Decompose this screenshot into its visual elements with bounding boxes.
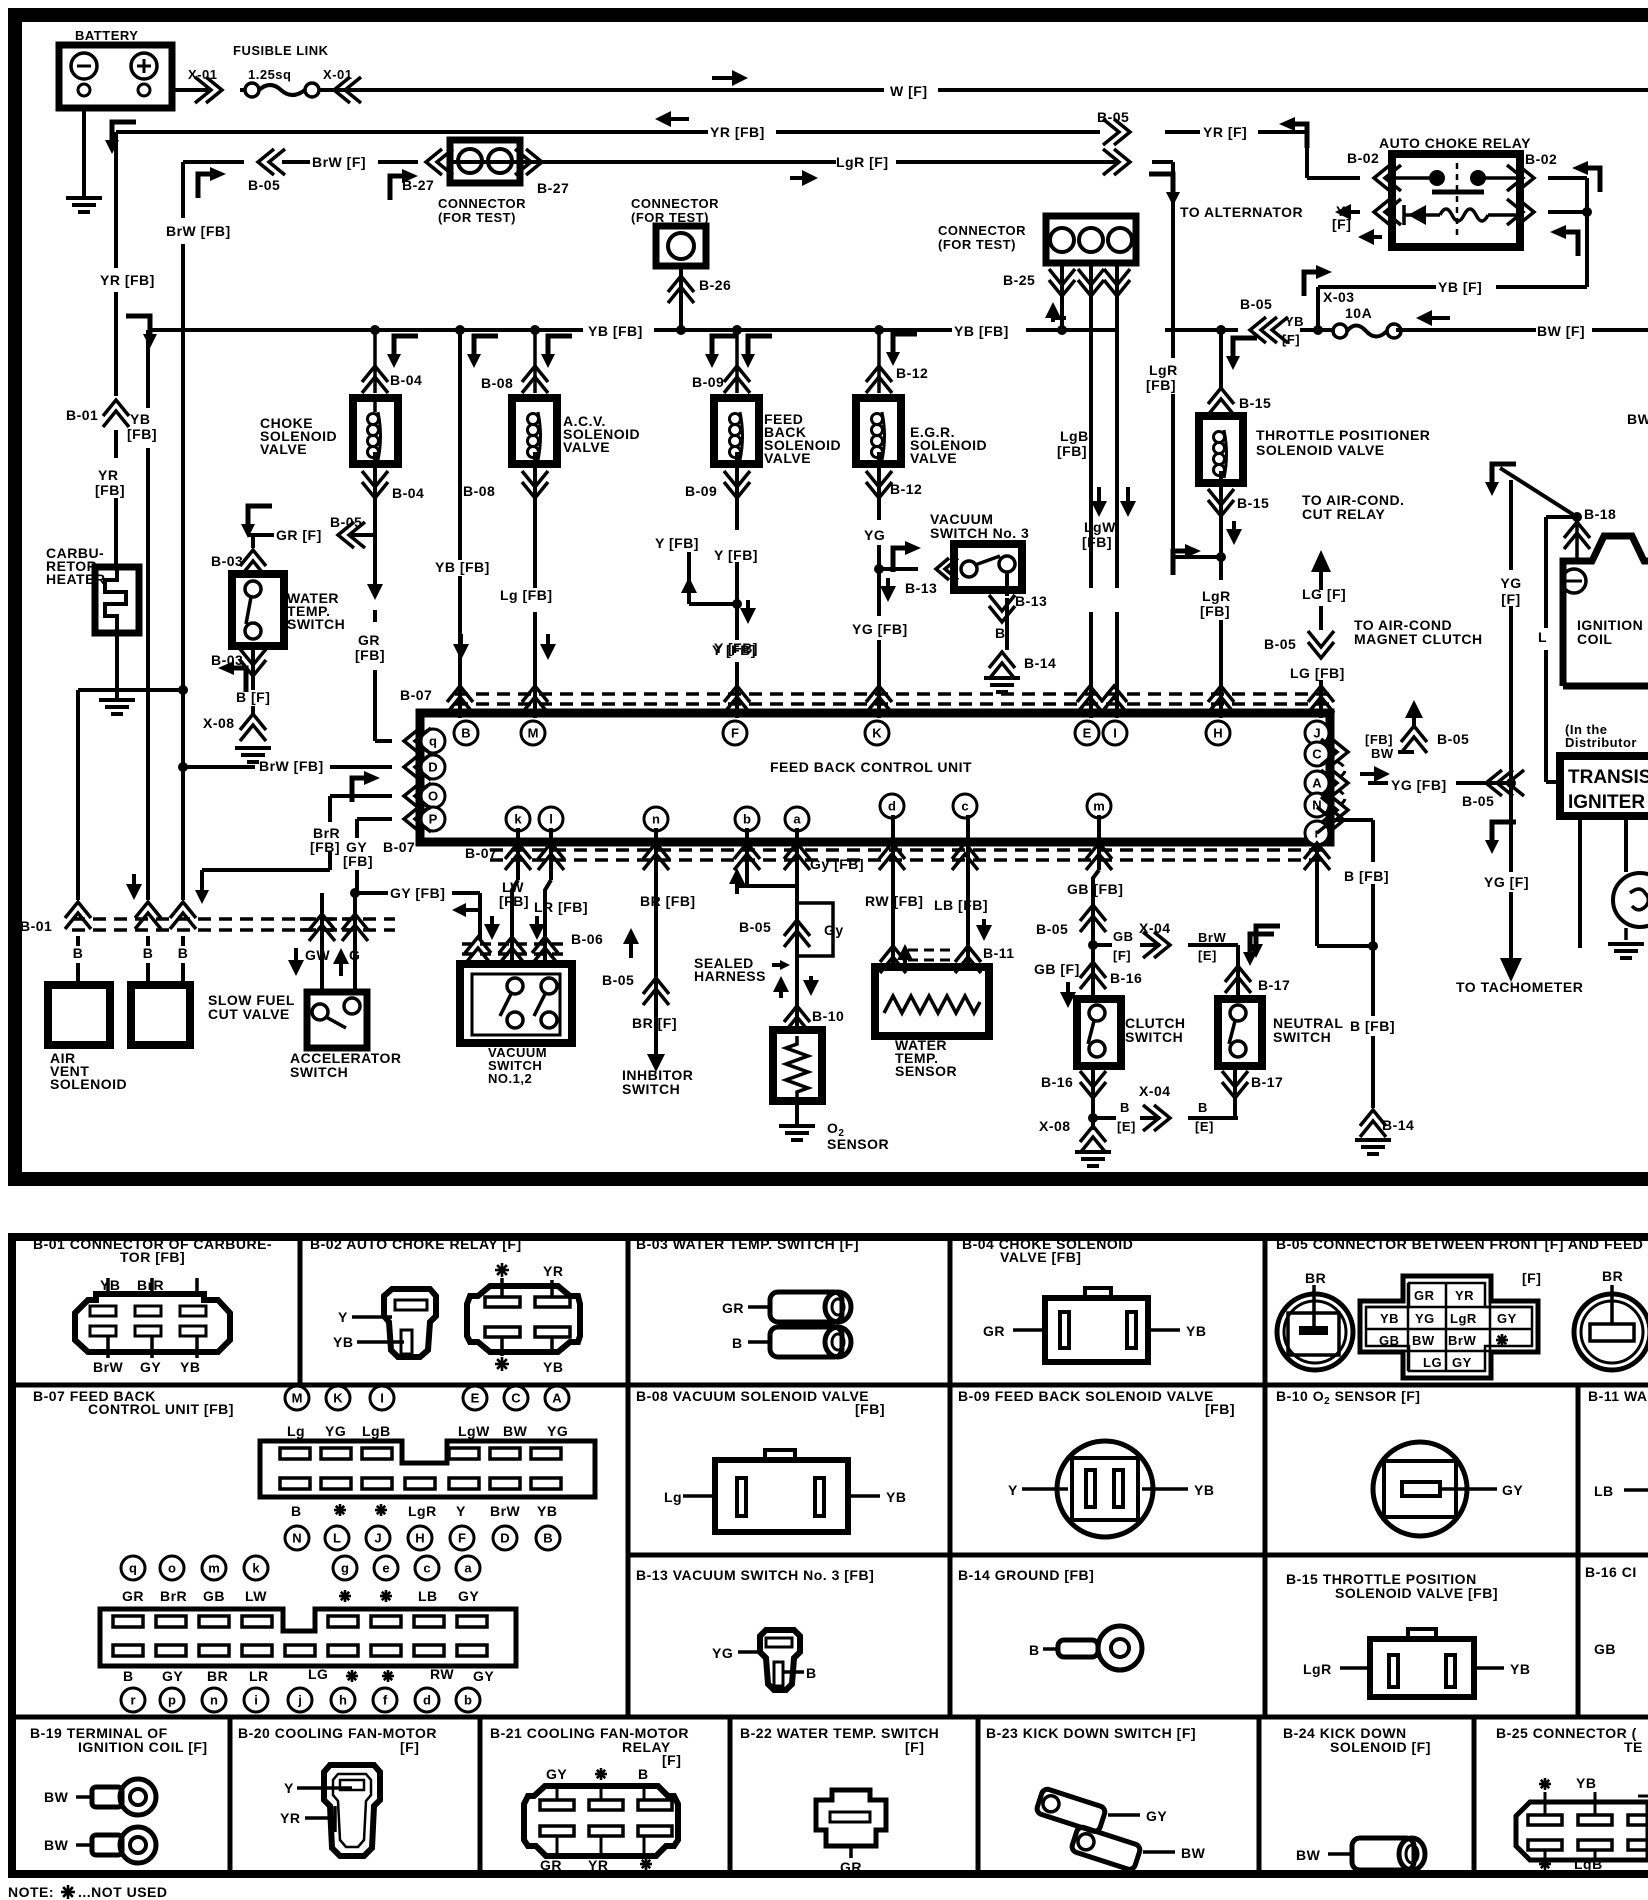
svg-text:[FB]: [FB] [310,839,340,855]
B-05 cross grid connector [1360,1276,1538,1378]
svg-text:TE: TE [1624,1739,1643,1755]
svg-text:[FB]: [FB] [1057,443,1087,459]
svg-text:GR: GR [122,1588,144,1604]
svg-text:B: B [543,1531,552,1546]
svg-text:YG: YG [547,1423,568,1439]
svg-text:GY [FB]: GY [FB] [390,885,445,901]
svg-text:B-07: B-07 [465,845,497,861]
wire LgW [FB] to pin I [1115,612,1119,718]
svg-text:VALVE: VALVE [910,450,957,466]
connector B-05 chevrons on LgR wire [1103,149,1130,175]
svg-text:YG [F]: YG [F] [1484,874,1529,890]
svg-text:a: a [464,1561,472,1576]
air vent solenoid box [48,985,110,1045]
svg-text:(FOR TEST): (FOR TEST) [438,210,516,225]
neutral switch [1233,1066,1237,1118]
FBCU left pins [421,755,445,779]
branch from V2 to air vent solenoid [78,688,183,692]
wire GB [FB] to clutch switch [1097,815,1101,870]
svg-text:O: O [428,789,438,804]
svg-text:YG: YG [1415,1311,1435,1326]
table row dividers [8,1383,1648,1388]
svg-text:MAGNET CLUTCH: MAGNET CLUTCH [1354,631,1483,647]
svg-text:GY: GY [1146,1808,1167,1824]
svg-text:M: M [528,726,539,741]
svg-text:BW: BW [44,1789,69,1805]
svg-text:Lg: Lg [664,1489,682,1505]
svg-text:GB [F]: GB [F] [1034,961,1080,977]
svg-text:C: C [1312,747,1322,762]
svg-text:e: e [382,1561,389,1576]
svg-text:n: n [210,1693,218,1708]
svg-text:YB: YB [1194,1482,1214,1498]
table column dividers row4 [228,1717,233,1870]
svg-text:K: K [872,726,882,741]
svg-text:J: J [374,1531,381,1546]
svg-text:B: B [995,625,1006,641]
svg-text:r: r [130,1693,135,1708]
svg-text:B-09: B-09 [692,374,724,390]
svg-text:B-09 FEED BACK SOLENOID VALVE: B-09 FEED BACK SOLENOID VALVE [958,1388,1214,1404]
svg-text:YB: YB [180,1359,200,1375]
svg-text:YG: YG [325,1423,346,1439]
wire YG [F] vertical right side [1485,464,1516,496]
clutch switch [1077,999,1121,1066]
svg-text:GB: GB [1113,929,1134,944]
horizontal bus YB [FB] H4 [148,328,583,332]
svg-text:[F]: [F] [1501,591,1520,607]
svg-text:YB [FB]: YB [FB] [954,323,1009,339]
branch wire of feedback valve with arrows [687,552,691,604]
svg-text:SWITCH: SWITCH [622,1081,680,1097]
connector table outer border [8,1233,1648,1241]
B-05 round connector right [1574,1294,1648,1370]
svg-text:SOLENOID [F]: SOLENOID [F] [1330,1739,1431,1755]
svg-text:BW: BW [1181,1845,1206,1861]
svg-text:B-27: B-27 [537,180,569,196]
svg-text:YB: YB [130,411,150,427]
svg-text:F: F [458,1531,466,1546]
svg-text:B-02 AUTO CHOKE RELAY [F]: B-02 AUTO CHOKE RELAY [F] [310,1236,522,1252]
svg-text:Y: Y [1008,1482,1018,1498]
svg-text:o: o [168,1561,176,1576]
FBCU top pins [421,729,445,753]
svg-text:[F]: [F] [1113,948,1131,963]
svg-text:E: E [471,1391,480,1406]
svg-text:B-05: B-05 [330,514,362,530]
svg-text:c: c [961,799,968,814]
svg-text:B-05: B-05 [1264,636,1296,652]
wire YR vertical from H2 down left side V1 [114,132,118,268]
svg-text:h: h [339,1693,347,1708]
svg-text:H: H [415,1531,424,1546]
transistor igniter [1560,756,1648,816]
svg-text:X-08: X-08 [203,715,235,731]
corner arrow pointing right near B-05 [198,167,226,198]
svg-text:B: B [1198,1100,1208,1115]
svg-text:B-16: B-16 [1041,1074,1073,1090]
svg-text:LG: LG [1423,1355,1442,1370]
svg-text:H: H [1213,726,1222,741]
svg-text:FUSIBLE LINK: FUSIBLE LINK [233,43,329,58]
svg-text:g: g [341,1561,349,1576]
svg-text:BW: BW [44,1837,69,1853]
svg-text:GY: GY [458,1588,479,1604]
B-05 round connector left [1277,1294,1353,1370]
wire Gy to O2 sensor [745,828,749,886]
svg-text:YR [FB]: YR [FB] [100,272,155,288]
svg-text:GR: GR [540,1857,562,1873]
svg-text:[FB]: [FB] [355,647,385,663]
wire GY [FB] from pin P [357,817,392,821]
svg-text:SWITCH: SWITCH [287,616,345,632]
three wires from B-25 down [1060,263,1064,330]
svg-text:CONNECTOR: CONNECTOR [938,223,1026,238]
B-01 dashed bus lower left [72,917,350,921]
svg-text:B-17: B-17 [1251,1074,1283,1090]
svg-text:SWITCH No. 3: SWITCH No. 3 [930,525,1029,541]
svg-text:i: i [254,1693,258,1708]
svg-text:YB [FB]: YB [FB] [588,323,643,339]
vacuum switch no.1,2 [460,964,572,1043]
svg-text:GR: GR [840,1859,862,1875]
svg-text:BrW: BrW [93,1359,124,1375]
svg-text:B-05: B-05 [1437,731,1469,747]
svg-text:BW: BW [1412,1333,1435,1348]
svg-text:[FB]: [FB] [1365,732,1393,747]
svg-text:YB: YB [1510,1661,1530,1677]
svg-text:LgW: LgW [1084,519,1116,535]
svg-text:B-04: B-04 [390,372,422,388]
svg-text:LgB: LgB [1574,1856,1603,1872]
svg-text:YR: YR [98,467,118,483]
wire YR [FB]/YR [F] - horizontal H2 [116,130,708,134]
wire B [E] X-04 between clutch and neutral switch [1093,1116,1116,1120]
svg-text:NO.1,2: NO.1,2 [488,1071,532,1086]
svg-text:B-08: B-08 [481,375,513,391]
choke solenoid valve [362,366,388,393]
svg-text:Gy: Gy [824,922,844,938]
svg-text:X-08: X-08 [1039,1118,1071,1134]
wires RW LB to water temp sensor [891,815,895,967]
wire to tachometer [1500,942,1522,982]
svg-text:L: L [1538,629,1547,645]
wire GR from pin q to water temp switch branch [375,739,392,743]
water temp switch [251,535,255,548]
svg-text:[FB]: [FB] [1082,534,1112,550]
svg-text:[E]: [E] [1195,1119,1214,1134]
svg-text:LB [FB]: LB [FB] [934,897,988,913]
svg-text:GB: GB [1379,1333,1400,1348]
svg-text:X-01: X-01 [188,67,217,82]
svg-text:YR: YR [588,1857,608,1873]
ground under distributor [1624,928,1628,940]
svg-text:FEED BACK CONTROL UNIT: FEED BACK CONTROL UNIT [770,759,972,775]
svg-text:X-03: X-03 [1323,289,1355,305]
wire LgB [FB] to pin E [1089,612,1093,718]
svg-text:D: D [500,1531,509,1546]
svg-text:SWITCH: SWITCH [290,1064,348,1080]
svg-text:B-02: B-02 [1347,150,1379,166]
svg-text:LgR: LgR [1303,1661,1332,1677]
water temp sensor [875,967,989,1036]
FBCU pin N exit chevrons [1321,797,1348,823]
svg-text:[F]: [F] [1282,332,1300,347]
svg-text:YB: YB [333,1334,353,1350]
svg-text:J: J [1313,726,1320,741]
svg-text:10A: 10A [1345,305,1372,321]
svg-text:[FB]: [FB] [127,426,157,442]
svg-text:LgR [F]: LgR [F] [836,154,888,170]
svg-text:q: q [129,1561,137,1576]
svg-text:B-05: B-05 [739,919,771,935]
svg-text:Y: Y [338,1309,348,1325]
svg-text:B-03 WATER TEMP. SWITCH [F]: B-03 WATER TEMP. SWITCH [F] [636,1236,859,1252]
svg-text:SWITCH: SWITCH [1125,1029,1183,1045]
ground under carburetor heater [115,633,119,698]
wire BrW [F] - horizontal H3 [183,160,244,164]
FBCU pin A exit wire YG [FB] [1321,770,1348,796]
svg-text:NOTE:: NOTE: [8,1884,54,1900]
svg-text:BrW: BrW [1448,1333,1476,1348]
svg-text:B-09: B-09 [685,483,717,499]
svg-text:B-18: B-18 [1584,506,1616,522]
svg-text:SWITCH: SWITCH [1273,1029,1331,1045]
svg-text:I: I [1113,726,1117,741]
wire LgR [FB] vertical from H3 to TPSV junction [1171,162,1175,358]
svg-text:[F]: [F] [400,1739,419,1755]
svg-text:B-15: B-15 [1239,395,1271,411]
svg-text:GB: GB [1594,1641,1616,1657]
svg-text:LG: LG [308,1666,328,1682]
svg-text:YB: YB [1186,1323,1206,1339]
throttle positioner solenoid valve [1219,330,1223,390]
svg-text:BR: BR [1305,1270,1326,1286]
svg-text:B-14: B-14 [1382,1117,1414,1133]
svg-text:B-13: B-13 [1015,593,1047,609]
svg-text:B-04: B-04 [392,485,424,501]
svg-text:k: k [252,1561,260,1576]
svg-text:a: a [793,812,801,827]
water temp switch branch wire GR [F] [248,533,274,537]
svg-text:B-07: B-07 [383,839,415,855]
svg-text:D: D [428,760,437,775]
svg-text:BW: BW [1371,746,1394,761]
svg-text:YR [F]: YR [F] [1203,124,1247,140]
a.c.v. solenoid valve [522,366,548,393]
svg-text:BrR: BrR [160,1588,187,1604]
svg-text:[FB]: [FB] [1146,377,1176,393]
svg-text:B-14 GROUND [FB]: B-14 GROUND [FB] [958,1567,1094,1583]
svg-text:SENSOR: SENSOR [827,1136,889,1152]
slow fuel cut valve box [131,985,190,1045]
svg-text:VALVE [FB]: VALVE [FB] [1000,1249,1081,1265]
svg-text:B-05: B-05 [1097,109,1129,125]
svg-text:YB [F]: YB [F] [1438,279,1482,295]
svg-text:X-04: X-04 [1139,1083,1171,1099]
svg-text:B-05: B-05 [248,177,280,193]
svg-text:Y [FB]: Y [FB] [714,640,758,656]
svg-text:B-12: B-12 [896,365,928,381]
svg-text:LgR: LgR [1202,588,1231,604]
svg-text:CUT VALVE: CUT VALVE [208,1006,290,1022]
svg-text:YB: YB [1285,314,1304,329]
svg-text:[F]: [F] [1332,216,1351,232]
svg-text:TO ALTERNATOR: TO ALTERNATOR [1180,204,1303,220]
svg-text:LR [FB]: LR [FB] [534,899,588,915]
svg-text:GR [F]: GR [F] [276,527,322,543]
svg-text:B [FB]: B [FB] [1344,868,1389,884]
svg-text:YR: YR [543,1263,563,1279]
svg-text:F: F [731,726,739,741]
wire YB [F] from relay down to fuse bus [1318,285,1436,289]
svg-text:LgR: LgR [408,1503,437,1519]
svg-text:k: k [514,812,522,827]
svg-text:E: E [1083,726,1092,741]
svg-text:B-25: B-25 [1003,272,1035,288]
svg-text:SENSOR: SENSOR [895,1063,957,1079]
wire BrW [FB] vertical V2 [181,162,185,218]
table column dividers row1 [298,1233,303,1385]
wire YB [FB] from bus to pin B [458,330,462,560]
svg-text:[FB]: [FB] [95,482,125,498]
svg-text:B-15: B-15 [1237,495,1269,511]
accelerator switch wires GW and G [320,893,324,940]
connector B-27 for test [450,140,520,183]
svg-text:CONNECTOR: CONNECTOR [438,196,526,211]
svg-text:GY: GY [1497,1311,1517,1326]
svg-text:[FB]: [FB] [1200,603,1230,619]
svg-text:RW: RW [430,1666,454,1682]
svg-text:A: A [552,1391,562,1406]
svg-text:CUT RELAY: CUT RELAY [1302,506,1385,522]
feed back solenoid valve [724,366,750,393]
svg-text:SOLENOID VALVE: SOLENOID VALVE [1256,442,1385,458]
wire B-17 above neutral switch [1236,945,1240,999]
frame border of main wiring diagram [8,8,1648,22]
svg-text:GR: GR [1414,1288,1435,1303]
svg-text:Y [FB]: Y [FB] [655,535,699,551]
svg-text:VALVE: VALVE [764,450,811,466]
arrow on W [F] wire [712,70,748,86]
svg-text:LgR: LgR [1450,1311,1477,1326]
svg-text:B: B [1120,1100,1130,1115]
svg-text:[FB]: [FB] [855,1401,885,1417]
svg-text:c: c [423,1561,430,1576]
svg-text:m: m [208,1561,220,1576]
svg-text:TRANSISTOR: TRANSISTOR [1568,767,1648,788]
svg-text:B-10: B-10 [812,1008,844,1024]
arrow down right of EGR [886,334,917,366]
top dashed bus B-07 above control unit [455,692,1330,696]
svg-text:P: P [429,812,438,827]
svg-text:B-05 CONNECTOR BETWEEN FRONT [: B-05 CONNECTOR BETWEEN FRONT [F] AND FEE… [1276,1236,1643,1252]
svg-text:RW [FB]: RW [FB] [865,893,923,909]
svg-text:f: f [383,1693,388,1708]
svg-text:B: B [73,945,84,961]
wire W [F] from battery - horizontal bus H1 [172,88,208,92]
svg-text:[E]: [E] [1198,948,1217,963]
svg-text:BrW: BrW [490,1503,521,1519]
svg-text:B-07: B-07 [400,687,432,703]
svg-text:X-01: X-01 [323,67,352,82]
ground B-14 under vacuum switch No.3 [989,652,1015,679]
accelerator switch [307,992,367,1048]
svg-text:GR: GR [722,1300,744,1316]
svg-text:LgB: LgB [362,1423,391,1439]
chevrons under bottom pins [505,843,531,870]
FBCU right side pin J C exits [1321,739,1348,765]
svg-text:BATTERY: BATTERY [75,28,138,43]
FBCU right pins [1305,742,1329,766]
svg-text:[FB]: [FB] [343,853,373,869]
svg-text:B-11 WA: B-11 WA [1588,1388,1648,1404]
svg-text:Y: Y [284,1780,294,1796]
ground under battery [66,198,102,212]
dashed bracket right of FBCU [1338,762,1345,806]
svg-text:SOLENOID VALVE [FB]: SOLENOID VALVE [FB] [1335,1585,1498,1601]
svg-text:BR [FB]: BR [FB] [640,893,696,909]
svg-text:B: B [123,1668,134,1684]
svg-text:YB: YB [1380,1311,1399,1326]
svg-text:B-05: B-05 [602,972,634,988]
svg-text:YR: YR [280,1810,300,1826]
svg-text:p: p [168,1693,176,1708]
wire L from ignition coil to igniter [1546,515,1577,519]
B-06 dashed connector line [462,942,568,946]
corner arrow under battery [105,122,136,154]
connector B-05 chevrons on YB bus [1250,317,1288,343]
svg-text:YG: YG [712,1645,733,1661]
wire YB [FB] corner from V-down to bus H4 [126,316,157,348]
svg-text:B-08: B-08 [463,483,495,499]
svg-text:B-16 CI: B-16 CI [1585,1564,1637,1580]
svg-text:[FB]: [FB] [1205,1401,1235,1417]
svg-text:Gy [FB]: Gy [FB] [810,856,864,872]
svg-text:YG [FB]: YG [FB] [1391,777,1447,793]
svg-text:HARNESS: HARNESS [694,968,766,984]
svg-text:K: K [333,1391,343,1406]
svg-text:B-01: B-01 [66,407,98,423]
svg-text:B-11: B-11 [983,945,1015,961]
feed back control unit box [420,713,1330,842]
svg-text:b: b [464,1693,472,1708]
svg-text:YG: YG [1500,575,1521,591]
svg-text:YG [FB]: YG [FB] [852,621,908,637]
svg-text:1.25sq: 1.25sq [248,67,291,82]
svg-text:B: B [178,945,189,961]
svg-text:B: B [1029,1642,1040,1658]
svg-text:YB: YB [100,1277,120,1293]
svg-text:GR: GR [983,1323,1005,1339]
svg-text:BrW [FB]: BrW [FB] [259,758,324,774]
svg-text:...NOT USED: ...NOT USED [78,1884,168,1900]
svg-text:B-01: B-01 [20,918,52,934]
svg-text:TOR [FB]: TOR [FB] [120,1249,185,1265]
LG [F] wire to air-cond magnet clutch [1311,550,1331,590]
svg-text:BW [F]: BW [F] [1537,323,1585,339]
svg-text:B: B [291,1503,302,1519]
svg-text:LG [FB]: LG [FB] [1290,665,1345,681]
svg-text:LB: LB [418,1588,438,1604]
svg-text:B-13: B-13 [905,580,937,596]
ground B-14 bottom right [1360,1110,1386,1137]
svg-text:SOLENOID: SOLENOID [50,1076,127,1092]
wires LW LR to vacuum switch no.1,2 [516,828,520,880]
svg-text:B: B [806,1665,817,1681]
svg-text:B: B [143,945,154,961]
svg-text:B-06: B-06 [571,931,603,947]
